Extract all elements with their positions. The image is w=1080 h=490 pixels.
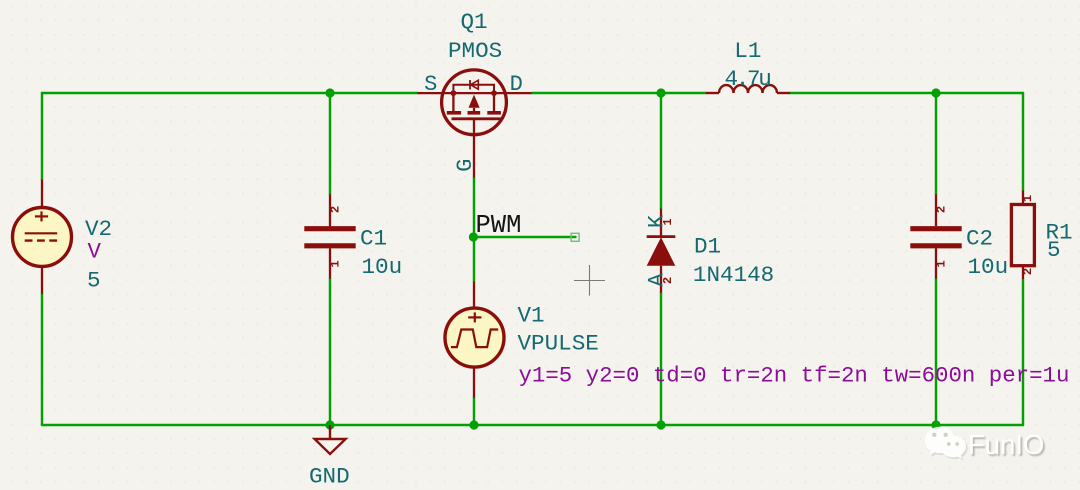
diode D1 [647, 209, 676, 293]
capacitor C1 [304, 194, 355, 278]
wire top-middle segment [532, 92, 707, 94]
svg-text:V1: V1 [518, 303, 545, 329]
junction at PWM node [469, 232, 478, 241]
svg-text:2: 2 [935, 206, 949, 213]
svg-text:C1: C1 [360, 225, 387, 251]
svg-text:G: G [453, 159, 478, 172]
watermark wechat bubbles [925, 427, 968, 461]
junction at C1 top [325, 88, 334, 97]
svg-text:C2: C2 [966, 225, 993, 251]
svg-text:FunIO: FunIO [968, 429, 1044, 460]
svg-text:5: 5 [1047, 237, 1061, 263]
wire gate to PWM node [473, 178, 475, 282]
wire D1 column lower [660, 293, 662, 425]
svg-text:D1: D1 [694, 233, 721, 259]
svg-text:5: 5 [87, 268, 101, 294]
svg-text:L1: L1 [734, 38, 761, 64]
svg-text:PMOS: PMOS [448, 38, 502, 64]
svg-text:S: S [424, 72, 437, 97]
svg-text:GND: GND [309, 464, 350, 490]
voltage source V2 [13, 180, 72, 294]
svg-text:1: 1 [935, 260, 949, 267]
wire R1 column upper [1022, 93, 1024, 191]
wire C2 column upper [935, 93, 937, 194]
wire bottom horizontal [42, 424, 1023, 426]
wire C2 column lower [935, 279, 937, 425]
wire PWM stub [473, 236, 575, 238]
svg-text:2: 2 [329, 206, 343, 213]
svg-text:10u: 10u [968, 254, 1009, 280]
svg-text:VPULSE: VPULSE [518, 331, 599, 357]
wire left vertical lower [41, 294, 43, 425]
wire C1 column upper [329, 93, 331, 194]
cursor crosshair [574, 265, 605, 296]
svg-text:y1=5 y2=0 td=0 tr=2n tf=2n tw=: y1=5 y2=0 td=0 tr=2n tf=2n tw=600n per=1… [519, 362, 1070, 388]
wire R1 column lower [1022, 279, 1024, 425]
svg-text:10u: 10u [362, 254, 403, 280]
wire V1 bottom [473, 398, 475, 425]
junction at V1 bottom [469, 420, 478, 429]
svg-text:2: 2 [661, 277, 675, 284]
wire C1 column lower [329, 279, 331, 425]
wire left vertical upper [41, 93, 43, 180]
svg-text:1N4148: 1N4148 [693, 262, 774, 288]
junction at C2 bottom [931, 420, 940, 429]
svg-text:V: V [88, 238, 102, 264]
ground symbol [315, 425, 346, 454]
svg-text:1: 1 [661, 218, 675, 225]
unconnected end marker PWM [571, 233, 579, 241]
svg-text:PWM: PWM [476, 211, 522, 240]
svg-text:1: 1 [1021, 195, 1035, 202]
svg-text:D: D [510, 72, 523, 97]
svg-text:1: 1 [329, 260, 343, 267]
svg-text:4.7u: 4.7u [725, 66, 771, 92]
junction at D1 top [656, 88, 665, 97]
svg-text:2: 2 [1021, 268, 1035, 275]
wire top-right segment [790, 92, 1023, 94]
wire top-left segment [42, 92, 418, 94]
resistor R1 [1011, 191, 1034, 280]
inductor L1 [706, 85, 790, 93]
transistor Q1 PMOS [418, 70, 532, 178]
capacitor C2 [910, 194, 961, 278]
junction at C2 top [931, 88, 940, 97]
wire D1 column upper [660, 93, 662, 209]
junction at D1 bottom [656, 420, 665, 429]
junction at C1 bottom [325, 420, 334, 429]
svg-text:Q1: Q1 [461, 9, 488, 35]
voltage source V1 [445, 282, 504, 398]
